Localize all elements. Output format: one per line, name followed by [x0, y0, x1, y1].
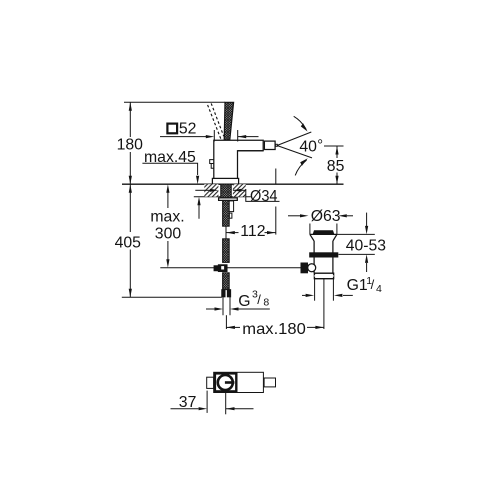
label square symbol of 52 [167, 124, 177, 134]
40-53 bottom (up) [365, 254, 368, 263]
dim G1 1/4 [302, 294, 306, 296]
112 right extension (spout tip) [275, 169, 277, 184]
svg-text:/: / [371, 277, 375, 292]
upper cylinder [314, 241, 333, 253]
svg-text:/: / [257, 292, 261, 307]
180 top (up) [129, 102, 132, 111]
dim 180 vertical [129, 102, 131, 137]
405 bottom (down) [129, 289, 132, 298]
max180 right (right-pointing) [315, 326, 324, 329]
O34 left (right-pointing) [210, 189, 219, 192]
G3/8 connector nut [222, 290, 225, 297]
extension lines [206, 391, 208, 413]
hose segment A [223, 200, 230, 226]
G3/8 left (right-pointing) [215, 307, 224, 310]
pop-up knob on body left [210, 160, 214, 169]
left tab [207, 377, 214, 388]
deck hatch left [204, 184, 218, 197]
svg-text:405: 405 [115, 235, 142, 252]
dim G3/8 [206, 308, 215, 310]
max45 underline + bend [142, 163, 197, 175]
dim max180 [226, 326, 240, 328]
svg-text:52: 52 [179, 121, 197, 138]
svg-text:4: 4 [376, 283, 382, 295]
sq52 right (left-pointing) [238, 135, 247, 138]
svg-text:300: 300 [155, 226, 182, 243]
G1 1/4 left (right-pointing) [306, 294, 315, 297]
waste body [314, 257, 333, 273]
svg-text:40-53: 40-53 [346, 238, 386, 255]
faucet centerline in gap [225, 227, 227, 240]
handle square (thick) [215, 373, 236, 391]
spray line upper [277, 132, 311, 146]
svg-text:Ø34: Ø34 [250, 188, 278, 205]
hose segment B [223, 239, 230, 263]
405 top (up) [129, 184, 132, 193]
arc arrow upper [294, 116, 307, 129]
rubber seal (dark band) [310, 253, 338, 257]
top flange [310, 233, 337, 235]
O63 right (left-pointing) [338, 214, 347, 217]
svg-text:37: 37 [179, 394, 197, 411]
deck bottom line [194, 196, 251, 198]
deck top line [122, 183, 344, 185]
ball joint [308, 264, 316, 272]
wire handle-top reference line [124, 101, 225, 103]
svg-text:112: 112 [240, 223, 265, 240]
horseshoe washer [219, 198, 238, 201]
svg-text:max.: max. [150, 209, 184, 226]
max180 left (left-pointing) [226, 326, 235, 329]
deck hatch right [233, 184, 246, 197]
body outline [214, 372, 264, 392]
max300 dim tails [167, 192, 169, 209]
dim 37 [171, 408, 199, 410]
G3/8 tube [222, 297, 224, 316]
arc lower arrowhead [300, 158, 308, 166]
arc arrow lower [295, 160, 306, 175]
max45 down [196, 176, 199, 185]
85 bottom (down) [335, 176, 338, 185]
37 right (left-pointing) [226, 407, 235, 410]
dim 85 [324, 145, 344, 147]
hose segment C [223, 273, 230, 290]
G1 1/4 right (left-pointing) [334, 294, 343, 297]
180 bottom (down) [129, 176, 132, 185]
faucet body [214, 140, 263, 178]
aerator outlet tick [275, 144, 277, 146]
base flange [212, 178, 238, 184]
svg-text:Ø63: Ø63 [311, 208, 341, 225]
faucet centerline to max180 [225, 315, 227, 329]
svg-text:85: 85 [327, 158, 345, 175]
G logo bar [225, 381, 235, 384]
max300 up [166, 184, 169, 193]
svg-text:40: 40 [299, 139, 317, 156]
dim 405 vertical [129, 184, 131, 232]
G3/8 right (left-pointing) [230, 307, 239, 310]
max45 up [197, 197, 200, 206]
O34 right (left-pointing) [233, 189, 242, 192]
405 bottom ref line [122, 296, 222, 298]
svg-text:max.45: max.45 [144, 149, 196, 166]
max300 down [166, 259, 169, 268]
dim 112 [226, 232, 238, 234]
G logo ring [218, 375, 233, 390]
svg-text:8: 8 [263, 296, 269, 308]
dim 40-53 [337, 233, 375, 235]
aerator block [264, 141, 275, 149]
svg-text:G: G [238, 293, 250, 310]
svg-text:°: ° [317, 138, 323, 154]
dim O63 [288, 215, 300, 217]
rod clamp [214, 266, 218, 271]
112 right (right-pointing) [267, 231, 276, 234]
lever handle phantom (dashed) [208, 103, 224, 138]
spout underline [238, 150, 264, 152]
sq52 extension lines [213, 130, 215, 142]
right spout tip [264, 378, 275, 387]
pop-up rod horizontal [160, 267, 301, 269]
lever handle solid (hatched) [224, 102, 233, 140]
dim sq52 leader [160, 136, 206, 138]
dim O34 [195, 189, 210, 191]
spray line lower [277, 146, 312, 158]
O63 left (right-pointing) [300, 214, 309, 217]
mounting bracket right of shank [229, 201, 234, 212]
bottom collar [314, 273, 333, 279]
37 left (right-pointing) [199, 407, 208, 410]
plug cap (dark) [313, 231, 334, 235]
40-53 top (down) [365, 226, 368, 235]
rod knob (dark) [301, 263, 308, 273]
112 left (left-pointing) [226, 231, 235, 234]
sq52 left (right-pointing) [206, 135, 215, 138]
85 top (up) [335, 146, 338, 155]
waste centerline [323, 279, 325, 329]
arc upper arrowhead [301, 123, 308, 131]
tailpipe [314, 279, 316, 301]
max45 lower arrow tail [198, 204, 200, 219]
svg-text:G1: G1 [347, 277, 368, 294]
shank through hole (hatched) [221, 184, 231, 198]
svg-text:180: 180 [117, 136, 144, 153]
svg-text:max.180: max.180 [242, 321, 306, 338]
